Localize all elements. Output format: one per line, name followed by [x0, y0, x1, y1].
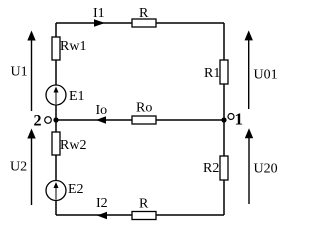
svg-text:R1: R1 — [204, 66, 220, 81]
svg-text:U01: U01 — [254, 68, 278, 83]
svg-text:Rw1: Rw1 — [60, 39, 86, 54]
resistor R2 — [203, 156, 228, 180]
wire middle rail node 2 to node 1 — [56, 119, 224, 121]
resistor R (top) — [132, 6, 156, 27]
resistor Ro — [132, 101, 156, 125]
wire top rail — [56, 22, 224, 24]
resistor R (bottom) — [132, 197, 156, 220]
node 1 — [221, 110, 243, 129]
svg-text:Ro: Ro — [136, 101, 152, 116]
source E1 — [46, 85, 85, 105]
svg-text:2: 2 — [34, 113, 42, 130]
resistor R1 — [204, 60, 228, 84]
current arrow I2 — [96, 196, 108, 219]
svg-text:I2: I2 — [96, 196, 108, 211]
resistor Rw2 — [52, 132, 86, 155]
voltage arrow U2 — [10, 129, 36, 206]
voltage arrow U01 — [245, 30, 278, 109]
wire right rail — [223, 23, 225, 215]
svg-text:I1: I1 — [93, 6, 105, 21]
voltage arrow U20 — [245, 128, 278, 204]
svg-text:R: R — [139, 6, 149, 21]
svg-text:U1: U1 — [11, 65, 28, 80]
wire left branch — [55, 23, 57, 215]
svg-text:Rw2: Rw2 — [60, 138, 86, 153]
wire bottom rail — [56, 214, 224, 216]
voltage arrow U1 — [11, 31, 36, 112]
source E2 — [46, 181, 84, 201]
svg-text:R2: R2 — [203, 161, 219, 176]
current arrow Io — [96, 103, 108, 124]
svg-text:1: 1 — [235, 110, 244, 129]
current arrow I1 — [93, 6, 105, 27]
svg-text:R: R — [139, 197, 149, 212]
svg-text:U20: U20 — [254, 162, 278, 177]
resistor Rw1 — [52, 37, 86, 60]
svg-text:U2: U2 — [10, 160, 27, 175]
svg-text:Io: Io — [96, 103, 108, 118]
node 2 — [34, 113, 59, 130]
svg-text:E2: E2 — [68, 182, 84, 197]
svg-text:E1: E1 — [69, 89, 85, 104]
